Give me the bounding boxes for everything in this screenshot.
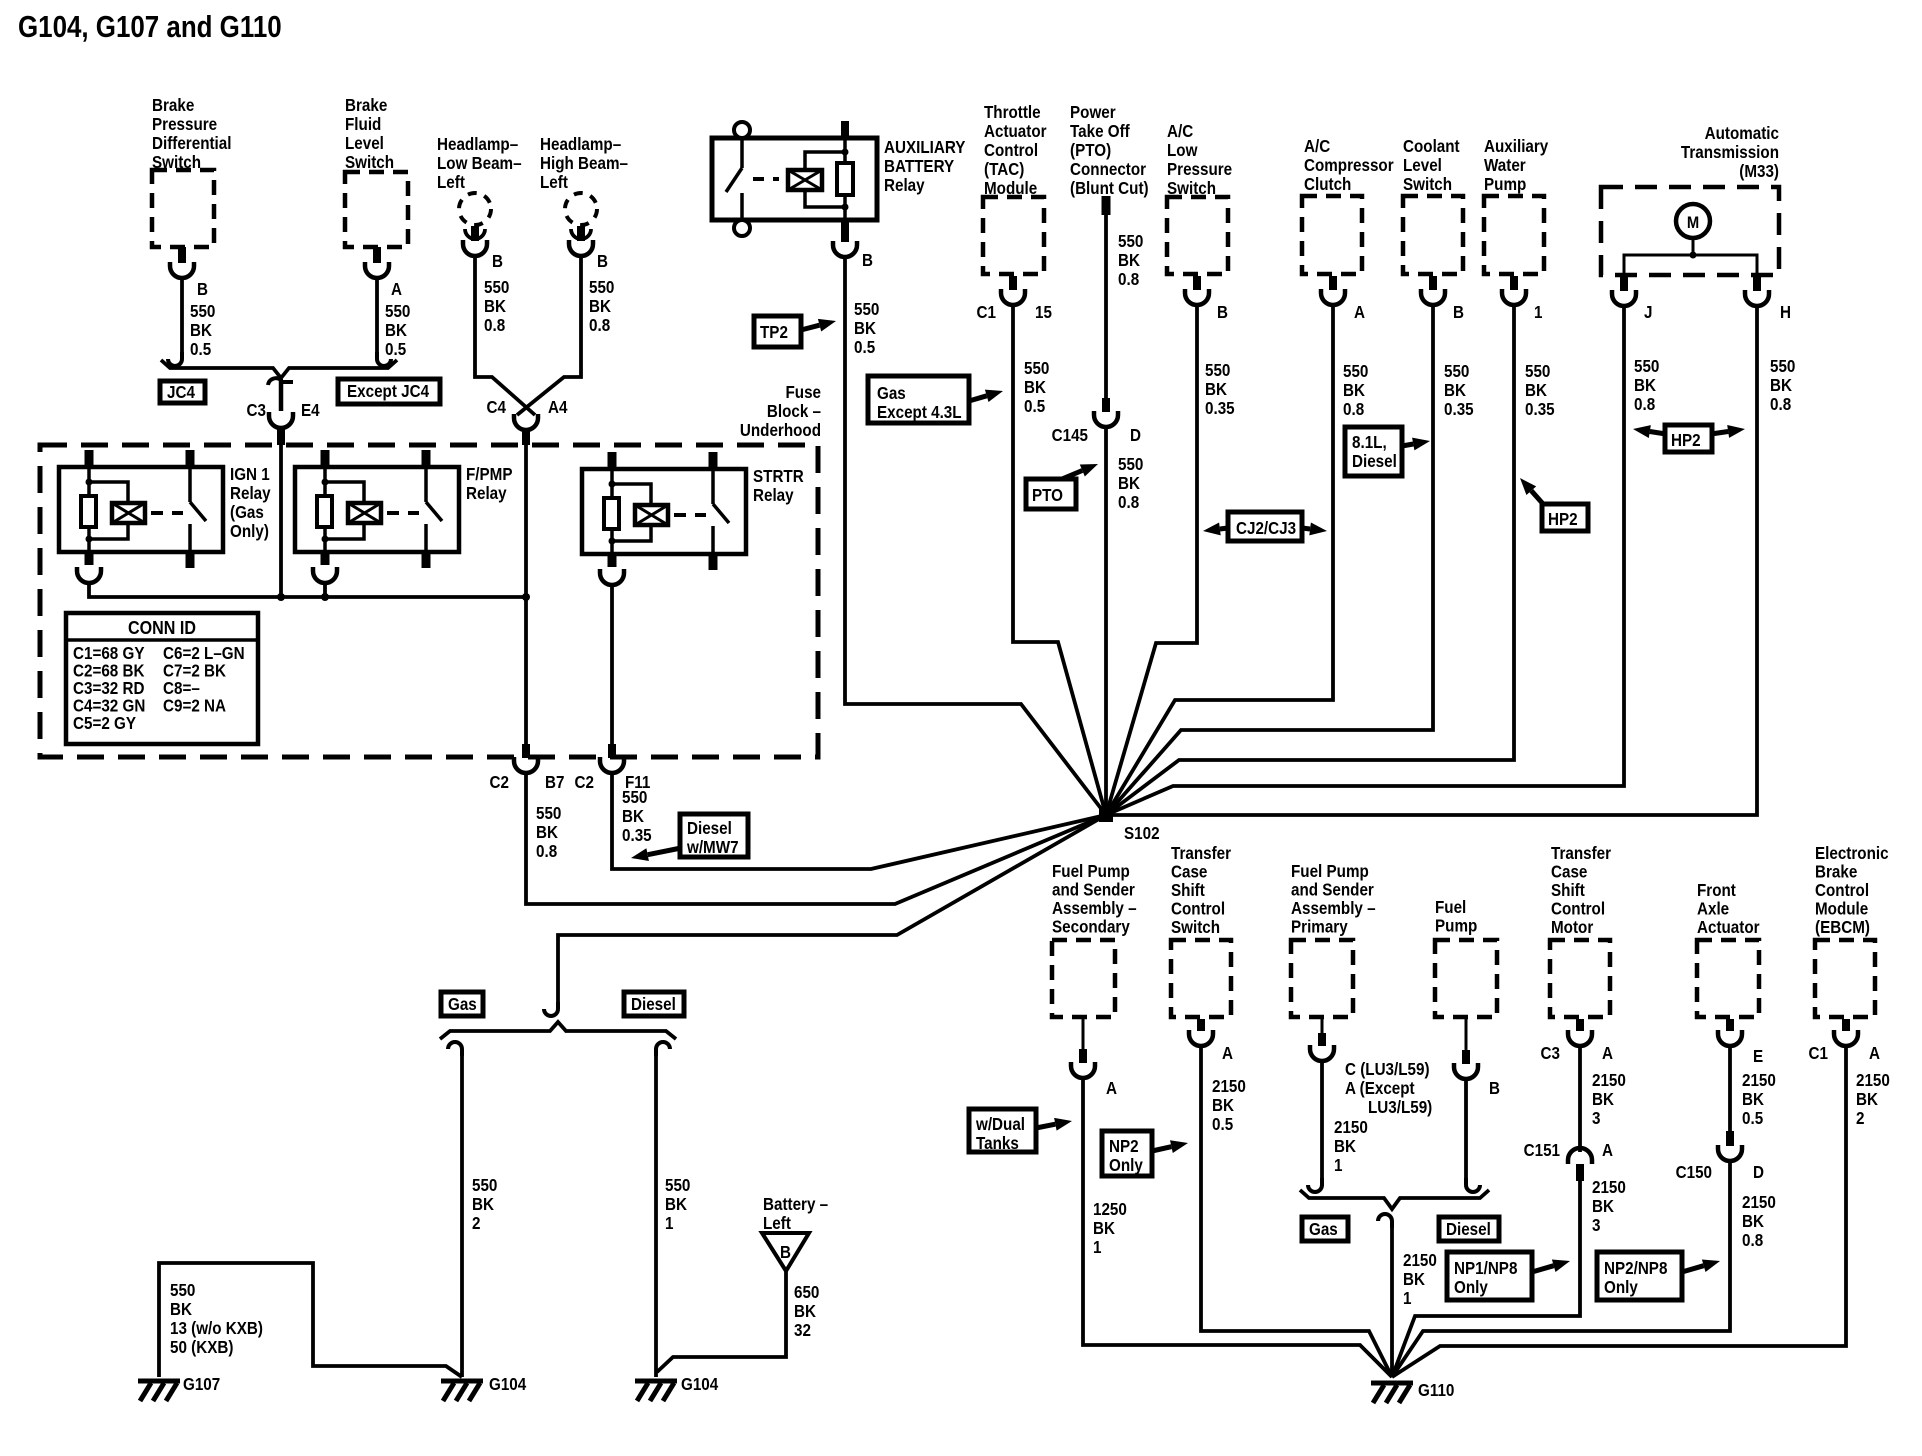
- svg-text:0.8: 0.8: [536, 842, 557, 861]
- svg-text:2150: 2150: [1742, 1071, 1776, 1090]
- svg-text:C3: C3: [1541, 1044, 1560, 1063]
- svg-text:C1: C1: [977, 303, 996, 322]
- svg-text:A4: A4: [548, 398, 568, 417]
- svg-text:Clutch: Clutch: [1304, 175, 1351, 194]
- svg-text:Coolant: Coolant: [1403, 137, 1460, 156]
- svg-text:8.1L,: 8.1L,: [1352, 433, 1387, 452]
- svg-text:BK: BK: [1856, 1090, 1878, 1109]
- TP2 label box: [754, 316, 801, 347]
- svg-text:A/C: A/C: [1167, 122, 1193, 141]
- NP2/NP8 Only label box: [1597, 1252, 1682, 1300]
- svg-text:Left: Left: [437, 173, 465, 192]
- svg-text:0.35: 0.35: [1444, 400, 1474, 419]
- NP2 Only label box: [1102, 1131, 1152, 1176]
- wire start hook below right brace: [1378, 1214, 1392, 1228]
- svg-text:0.35: 0.35: [622, 826, 652, 845]
- svg-text:CONN ID: CONN ID: [128, 617, 196, 638]
- svg-text:B: B: [1217, 303, 1228, 322]
- svg-text:Fuel: Fuel: [1435, 898, 1466, 917]
- svg-text:550: 550: [472, 1176, 497, 1195]
- svg-text:(M33): (M33): [1739, 162, 1779, 181]
- svg-text:Throttle: Throttle: [984, 103, 1041, 122]
- wire brace to G110: [1390, 1226, 1394, 1377]
- svg-text:550: 550: [854, 300, 879, 319]
- svg-text:(EBCM): (EBCM): [1815, 918, 1870, 937]
- svg-text:Power: Power: [1070, 103, 1116, 122]
- connector C150 D: [1728, 1046, 1732, 1131]
- svg-text:Headlamp–: Headlamp–: [540, 135, 621, 154]
- svg-text:BK: BK: [1343, 381, 1365, 400]
- svg-text:Control: Control: [984, 141, 1038, 160]
- svg-text:32: 32: [794, 1321, 811, 1340]
- svg-text:High Beam–: High Beam–: [540, 154, 628, 173]
- svg-text:G104: G104: [681, 1375, 719, 1394]
- svg-text:Pressure: Pressure: [152, 115, 217, 134]
- svg-text:Brake: Brake: [152, 96, 194, 115]
- svg-text:BK: BK: [1444, 381, 1466, 400]
- 8.1L Diesel label box: [1345, 427, 1402, 476]
- wire brake pressure switch B: [180, 278, 184, 352]
- splice S102: [1099, 808, 1113, 822]
- wire coolant level B to S102: [1106, 305, 1433, 815]
- wire E4 into fuse block: [279, 445, 283, 597]
- Diesel label box (right): [1439, 1217, 1499, 1241]
- svg-text:Diesel: Diesel: [1446, 1220, 1491, 1239]
- svg-text:(TAC): (TAC): [984, 160, 1024, 179]
- svg-text:BK: BK: [536, 823, 558, 842]
- svg-text:BK: BK: [190, 321, 212, 340]
- svg-text:Shift: Shift: [1171, 881, 1205, 900]
- wire headlamp high beam B: [517, 256, 581, 415]
- svg-text:1: 1: [1334, 1156, 1342, 1175]
- svg-text:C4: C4: [487, 398, 507, 417]
- wire secondary A to G110: [1083, 1078, 1392, 1377]
- svg-text:B: B: [1453, 303, 1464, 322]
- svg-text:BK: BK: [1592, 1197, 1614, 1216]
- svg-text:(Blunt Cut): (Blunt Cut): [1070, 179, 1149, 198]
- ground G107: [138, 1381, 180, 1401]
- wire A/C low pressure B to S102: [1106, 305, 1197, 815]
- svg-text:Except JC4: Except JC4: [347, 382, 430, 401]
- svg-text:BK: BK: [472, 1195, 494, 1214]
- svg-text:BK: BK: [622, 807, 644, 826]
- svg-text:550: 550: [665, 1176, 690, 1195]
- svg-text:2150: 2150: [1742, 1193, 1776, 1212]
- Gas Except 4.3L label box: [868, 376, 969, 423]
- svg-text:Fuel Pump: Fuel Pump: [1052, 862, 1130, 881]
- svg-text:2150: 2150: [1856, 1071, 1890, 1090]
- ground G110: [1371, 1383, 1413, 1403]
- svg-text:Transfer: Transfer: [1551, 844, 1612, 863]
- svg-text:1250: 1250: [1093, 1200, 1127, 1219]
- svg-text:650: 650: [794, 1283, 819, 1302]
- svg-text:D: D: [1753, 1163, 1764, 1182]
- svg-text:BK: BK: [1205, 380, 1227, 399]
- svg-text:Brake: Brake: [345, 96, 387, 115]
- front axle actuator: [1697, 881, 1760, 937]
- svg-text:NP2: NP2: [1109, 1137, 1139, 1156]
- svg-text:Auxiliary: Auxiliary: [1484, 137, 1549, 156]
- svg-text:C2: C2: [490, 773, 509, 792]
- fuel pump: [1435, 898, 1477, 936]
- svg-text:BK: BK: [170, 1300, 192, 1319]
- svg-text:G110: G110: [1418, 1381, 1454, 1400]
- svg-text:Battery –: Battery –: [763, 1195, 828, 1214]
- svg-text:C5=2 GY: C5=2 GY: [73, 714, 136, 733]
- coolant level switch: [1403, 137, 1460, 194]
- Gas label box (right): [1302, 1217, 1348, 1241]
- svg-text:Relay: Relay: [466, 484, 507, 503]
- svg-text:Differential: Differential: [152, 134, 231, 153]
- wire TAC 15 to S102: [1013, 305, 1106, 815]
- svg-text:BK: BK: [1334, 1137, 1356, 1156]
- svg-text:Underhood: Underhood: [740, 421, 821, 440]
- svg-text:BK: BK: [385, 321, 407, 340]
- svg-text:Compressor: Compressor: [1304, 156, 1394, 175]
- svg-text:BK: BK: [1525, 381, 1547, 400]
- svg-text:A: A: [1354, 303, 1365, 322]
- svg-text:A: A: [1602, 1044, 1613, 1063]
- svg-text:Headlamp–: Headlamp–: [437, 135, 518, 154]
- svg-text:C1=68 GY: C1=68 GY: [73, 644, 145, 663]
- svg-text:Switch: Switch: [1171, 918, 1220, 937]
- svg-text:A: A: [1869, 1044, 1880, 1063]
- svg-text:BK: BK: [484, 297, 506, 316]
- svg-text:C150: C150: [1676, 1163, 1712, 1182]
- svg-text:Electronic: Electronic: [1815, 844, 1889, 863]
- NP1/NP8 Only label box: [1447, 1252, 1532, 1300]
- FPMP left pin connector: [313, 567, 337, 583]
- svg-text:550: 550: [190, 302, 215, 321]
- wire diesel branch to G104: [656, 1042, 670, 1056]
- wire battery left to G104: [657, 1271, 786, 1372]
- svg-text:550: 550: [1634, 357, 1659, 376]
- svg-text:IGN 1: IGN 1: [230, 465, 270, 484]
- STRTR left pin connector: [600, 569, 624, 585]
- svg-text:C7=2 BK: C7=2 BK: [163, 662, 226, 681]
- svg-text:Assembly –: Assembly –: [1052, 899, 1137, 918]
- svg-text:550: 550: [589, 278, 614, 297]
- svg-text:0.8: 0.8: [1343, 400, 1364, 419]
- relay STRTR: [582, 452, 804, 570]
- svg-text:STRTR: STRTR: [753, 467, 804, 486]
- svg-text:Level: Level: [345, 134, 384, 153]
- svg-text:G107: G107: [183, 1375, 220, 1394]
- svg-text:A: A: [1222, 1044, 1233, 1063]
- svg-text:C145: C145: [1052, 426, 1088, 445]
- wire STRTR pin down to F11: [610, 585, 614, 744]
- svg-text:550: 550: [385, 302, 410, 321]
- svg-text:Diesel: Diesel: [1352, 452, 1397, 471]
- svg-text:C6=2 L–GN: C6=2 L–GN: [163, 644, 245, 663]
- svg-text:C3: C3: [247, 401, 266, 420]
- svg-text:0.5: 0.5: [190, 340, 211, 359]
- svg-text:0.8: 0.8: [1634, 395, 1655, 414]
- IGN1 left pin connector: [77, 567, 101, 583]
- wire end hook above left brace: [544, 1002, 558, 1016]
- svg-text:C2: C2: [575, 773, 594, 792]
- svg-text:2150: 2150: [1334, 1118, 1368, 1137]
- svg-text:550: 550: [1343, 362, 1368, 381]
- svg-text:BK: BK: [854, 319, 876, 338]
- svg-text:Pressure: Pressure: [1167, 160, 1232, 179]
- svg-text:0.8: 0.8: [1742, 1231, 1763, 1250]
- svg-text:0.5: 0.5: [1024, 397, 1045, 416]
- svg-text:C2=68 BK: C2=68 BK: [73, 662, 145, 681]
- w/Dual Tanks label box: [969, 1109, 1036, 1153]
- relay IGN 1 (gas only): [59, 450, 271, 568]
- svg-text:Switch: Switch: [345, 153, 394, 172]
- svg-text:Brake: Brake: [1815, 863, 1857, 882]
- svg-text:550: 550: [170, 1281, 195, 1300]
- svg-text:Actuator: Actuator: [1697, 918, 1760, 937]
- auxiliary water pump: [1484, 137, 1549, 194]
- svg-text:A/C: A/C: [1304, 137, 1330, 156]
- svg-text:H: H: [1780, 303, 1791, 322]
- brace JC4 / Except JC4: [161, 360, 397, 378]
- svg-text:550: 550: [536, 804, 561, 823]
- svg-text:550: 550: [1444, 362, 1469, 381]
- svg-text:(Gas: (Gas: [230, 503, 264, 522]
- svg-text:w/MW7: w/MW7: [686, 838, 738, 857]
- svg-text:0.5: 0.5: [854, 338, 875, 357]
- connector C4/A4: [514, 414, 538, 430]
- svg-text:550: 550: [1205, 361, 1230, 380]
- wire G107 to G104: [159, 1263, 462, 1377]
- svg-text:2150: 2150: [1592, 1071, 1626, 1090]
- svg-text:Level: Level: [1403, 156, 1442, 175]
- wire headlamp low beam B: [475, 256, 535, 415]
- svg-text:1: 1: [1534, 303, 1542, 322]
- svg-text:Low Beam–: Low Beam–: [437, 154, 522, 173]
- svg-text:Block –: Block –: [767, 402, 821, 421]
- svg-text:Left: Left: [763, 1214, 791, 1233]
- svg-text:F/PMP: F/PMP: [466, 465, 513, 484]
- svg-text:0.8: 0.8: [589, 316, 610, 335]
- svg-text:B7: B7: [545, 773, 564, 792]
- svg-text:A: A: [1106, 1079, 1117, 1098]
- JC4 label box: [160, 381, 205, 403]
- svg-text:0.5: 0.5: [385, 340, 406, 359]
- svg-text:Automatic: Automatic: [1705, 124, 1779, 143]
- svg-text:Case: Case: [1551, 863, 1587, 882]
- svg-text:Control: Control: [1815, 881, 1869, 900]
- headlamp high beam left: [540, 135, 628, 192]
- brace Gas/Diesel left: [440, 1022, 676, 1039]
- svg-text:BK: BK: [1403, 1270, 1425, 1289]
- svg-text:and Sender: and Sender: [1052, 881, 1135, 900]
- svg-text:Module: Module: [1815, 900, 1868, 919]
- svg-text:Tanks: Tanks: [976, 1134, 1019, 1153]
- A/C compressor clutch: [1304, 137, 1394, 194]
- svg-text:550: 550: [1024, 359, 1049, 378]
- connector C145 D: [1102, 398, 1110, 412]
- svg-text:0.5: 0.5: [1742, 1109, 1763, 1128]
- svg-text:E4: E4: [301, 401, 320, 420]
- svg-text:15: 15: [1035, 303, 1052, 322]
- svg-text:BK: BK: [1592, 1090, 1614, 1109]
- wire transfer case switch A to G110: [1201, 1046, 1392, 1377]
- wire brake fluid switch A: [375, 278, 379, 352]
- svg-text:E: E: [1753, 1047, 1763, 1066]
- connector C3/E4: [268, 378, 293, 385]
- svg-text:13 (w/o KXB): 13 (w/o KXB): [170, 1319, 263, 1338]
- svg-text:C4=32 GN: C4=32 GN: [73, 697, 145, 716]
- svg-text:Secondary: Secondary: [1052, 918, 1131, 937]
- svg-text:Assembly –: Assembly –: [1291, 899, 1376, 918]
- svg-text:HP2: HP2: [1671, 431, 1701, 450]
- wire EBCM A to G110: [1392, 1046, 1846, 1377]
- svg-text:BK: BK: [1024, 378, 1046, 397]
- svg-text:BK: BK: [1770, 376, 1792, 395]
- svg-text:G104: G104: [489, 1375, 527, 1394]
- CJ2/CJ3 label box: [1228, 512, 1302, 541]
- svg-text:1: 1: [1093, 1238, 1101, 1257]
- brake fluid level switch: [345, 96, 394, 172]
- svg-text:BK: BK: [1742, 1212, 1764, 1231]
- connector C2 B7 at fuse block bottom: [522, 744, 530, 758]
- svg-text:w/Dual: w/Dual: [975, 1115, 1025, 1134]
- wire IGN1 pin to bus: [89, 583, 525, 597]
- svg-text:CJ2/CJ3: CJ2/CJ3: [1236, 519, 1296, 538]
- wire transmission H to S102: [1106, 306, 1757, 815]
- svg-text:BK: BK: [1742, 1090, 1764, 1109]
- svg-text:Actuator: Actuator: [984, 122, 1047, 141]
- svg-text:0.8: 0.8: [484, 316, 505, 335]
- brace Gas/Diesel right: [1300, 1190, 1489, 1209]
- svg-text:Fuse: Fuse: [785, 383, 821, 402]
- svg-text:JC4: JC4: [167, 383, 196, 402]
- svg-text:PTO: PTO: [1032, 486, 1063, 505]
- Diesel w/MW7 label box: [680, 814, 748, 857]
- svg-text:0.8: 0.8: [1770, 395, 1791, 414]
- wire S102 to Gas/Diesel brace left: [558, 815, 1106, 1004]
- headlamp low beam left: [437, 135, 522, 192]
- svg-text:Fluid: Fluid: [345, 115, 381, 134]
- svg-text:1: 1: [665, 1214, 673, 1233]
- wire primary to brace: [1320, 1061, 1324, 1180]
- svg-text:Pump: Pump: [1435, 917, 1477, 936]
- wire B7 to S102: [526, 773, 1106, 904]
- svg-text:Relay: Relay: [884, 176, 925, 195]
- auxiliary battery relay: [712, 138, 877, 220]
- wire auxiliary water pump 1 to S102: [1106, 305, 1514, 815]
- svg-text:M: M: [1687, 214, 1699, 232]
- svg-text:B: B: [780, 1243, 791, 1262]
- svg-text:2: 2: [1856, 1109, 1864, 1128]
- fuel pump and sender assembly - primary: [1291, 862, 1376, 937]
- wire transfer case motor to G110: [1392, 1181, 1580, 1377]
- svg-text:Transmission: Transmission: [1681, 143, 1779, 162]
- svg-text:Water: Water: [1484, 156, 1526, 175]
- svg-text:BK: BK: [1118, 474, 1140, 493]
- wire C4/A4 down through fuse block: [524, 445, 528, 744]
- svg-text:D: D: [1130, 426, 1141, 445]
- wire FPMP pin to bus: [323, 583, 327, 597]
- svg-text:Left: Left: [540, 173, 568, 192]
- ground G104 (gas): [441, 1381, 483, 1401]
- svg-text:J: J: [1644, 303, 1652, 322]
- Gas label box (left): [441, 992, 483, 1016]
- svg-text:550: 550: [622, 788, 647, 807]
- svg-text:HP2: HP2: [1548, 510, 1578, 529]
- wire C145 D to S102: [1104, 427, 1108, 815]
- wire auxiliary battery relay B to S102: [845, 257, 1106, 815]
- wire fuel pump B to brace: [1464, 1079, 1468, 1180]
- svg-text:B: B: [1489, 1079, 1500, 1098]
- svg-text:C8=–: C8=–: [163, 679, 200, 698]
- motor M: [1676, 204, 1710, 238]
- svg-text:3: 3: [1592, 1216, 1600, 1235]
- svg-text:BK: BK: [1118, 251, 1140, 270]
- svg-text:Low: Low: [1167, 141, 1198, 160]
- ground G104 (diesel): [635, 1381, 677, 1401]
- svg-text:Gas: Gas: [877, 384, 906, 403]
- svg-text:(PTO): (PTO): [1070, 141, 1111, 160]
- svg-text:Relay: Relay: [230, 484, 271, 503]
- svg-text:2150: 2150: [1403, 1251, 1437, 1270]
- svg-text:Axle: Axle: [1697, 900, 1729, 919]
- svg-text:Only): Only): [230, 522, 269, 541]
- svg-text:BK: BK: [1634, 376, 1656, 395]
- svg-text:AUXILIARY: AUXILIARY: [884, 138, 965, 157]
- electronic brake control module (EBCM): [1815, 844, 1889, 937]
- svg-text:550: 550: [1118, 232, 1143, 251]
- svg-text:Front: Front: [1697, 881, 1736, 900]
- svg-text:NP2/NP8: NP2/NP8: [1604, 1259, 1667, 1278]
- svg-text:B: B: [197, 280, 208, 299]
- transfer case shift control motor: [1551, 844, 1612, 937]
- svg-text:550: 550: [1525, 362, 1550, 381]
- svg-text:Fuel Pump: Fuel Pump: [1291, 862, 1369, 881]
- svg-text:Relay: Relay: [753, 486, 794, 505]
- svg-text:Diesel: Diesel: [631, 995, 676, 1014]
- svg-text:TP2: TP2: [760, 323, 788, 342]
- svg-text:2: 2: [472, 1214, 480, 1233]
- svg-text:A: A: [391, 280, 402, 299]
- wire M to J and H pins: [1692, 238, 1695, 255]
- svg-text:3: 3: [1592, 1109, 1600, 1128]
- svg-text:C151: C151: [1524, 1141, 1560, 1160]
- svg-text:Switch: Switch: [1403, 175, 1452, 194]
- svg-text:1: 1: [1403, 1289, 1411, 1308]
- PTO label box: [1026, 479, 1076, 509]
- wire front axle actuator to G110: [1392, 1161, 1730, 1377]
- power take off (PTO) connector (blunt cut): [1070, 103, 1149, 198]
- svg-text:Connector: Connector: [1070, 160, 1147, 179]
- svg-text:G104, G107 and G110: G104, G107 and G110: [18, 9, 282, 43]
- svg-text:Control: Control: [1171, 900, 1225, 919]
- svg-text:C3=32 RD: C3=32 RD: [73, 679, 145, 698]
- throttle actuator control (TAC) module: [984, 103, 1047, 198]
- Except JC4 label box: [338, 379, 440, 404]
- svg-text:Shift: Shift: [1551, 881, 1585, 900]
- svg-text:Only: Only: [1604, 1278, 1639, 1297]
- HP2 label box (water pump): [1542, 504, 1588, 531]
- svg-text:Except 4.3L: Except 4.3L: [877, 403, 962, 422]
- svg-text:Transfer: Transfer: [1171, 844, 1232, 863]
- connector C151 A: [1578, 1046, 1582, 1152]
- svg-text:B: B: [492, 252, 503, 271]
- svg-text:Primary: Primary: [1291, 918, 1348, 937]
- svg-text:Pump: Pump: [1484, 175, 1526, 194]
- svg-text:550: 550: [484, 278, 509, 297]
- svg-text:0.35: 0.35: [1525, 400, 1555, 419]
- svg-text:B: B: [862, 251, 873, 270]
- svg-text:50 (KXB): 50 (KXB): [170, 1338, 233, 1357]
- svg-text:BK: BK: [589, 297, 611, 316]
- connector C2 F11 at fuse block bottom: [608, 744, 616, 758]
